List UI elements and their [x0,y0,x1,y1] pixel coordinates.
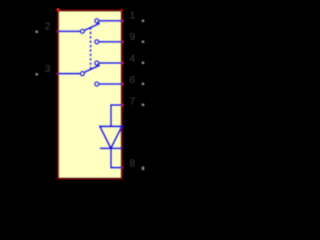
svg-text:3: 3 [45,64,51,75]
svg-text:7: 7 [130,96,136,107]
svg-text:9: 9 [130,32,136,43]
svg-text:8: 8 [130,159,136,170]
svg-text:4: 4 [130,54,136,65]
svg-text:6: 6 [130,75,136,86]
svg-text:1: 1 [130,10,136,21]
svg-text:2: 2 [45,21,51,32]
